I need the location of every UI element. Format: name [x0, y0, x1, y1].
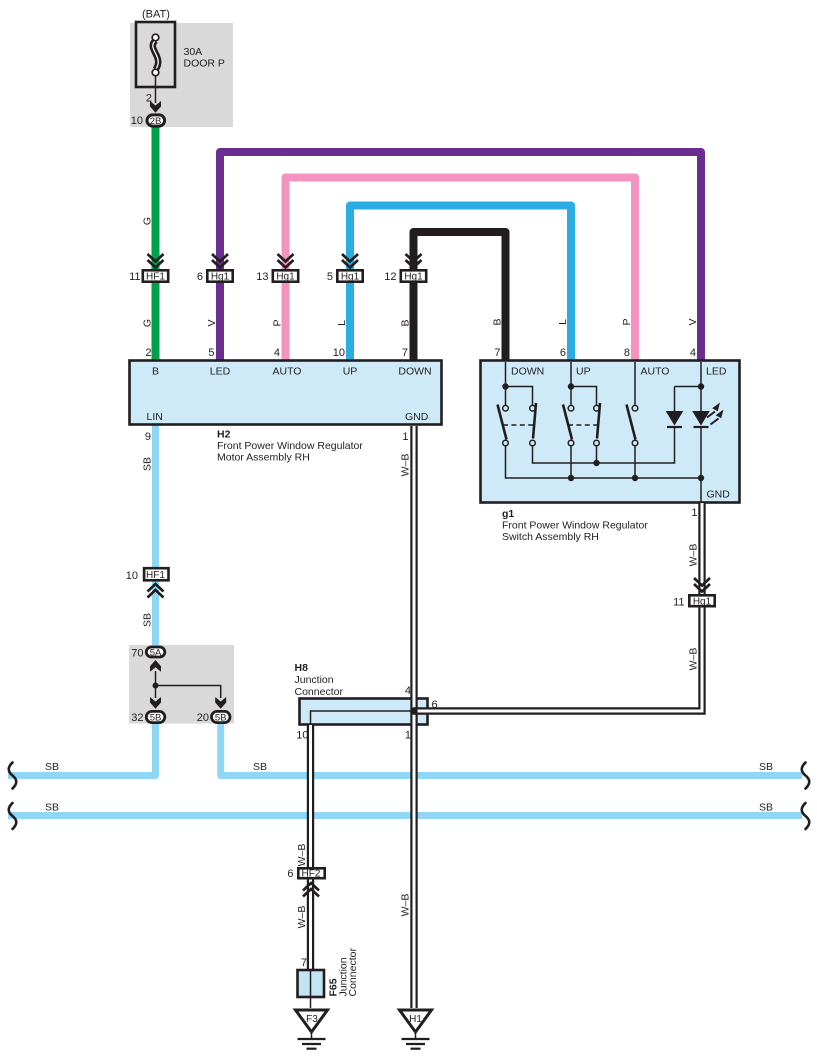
- switch AUTO (g1): [627, 405, 638, 446]
- svg-text:G: G: [142, 217, 154, 225]
- svg-text:L: L: [557, 319, 569, 325]
- connector box Hg1 pin 5: [337, 270, 362, 281]
- switch UP (g1, double pole): [563, 403, 600, 446]
- wire color labels (rotated): [142, 217, 700, 928]
- title F65 Junction Connector (rotated): [328, 948, 360, 997]
- svg-text:5A: 5A: [150, 648, 162, 659]
- svg-text:DOWN: DOWN: [511, 366, 544, 378]
- wire W-B H8 pin 10 to F65 pin 7: [307, 725, 314, 971]
- arrow into 5B right: [215, 697, 226, 709]
- svg-text:P: P: [621, 318, 633, 325]
- svg-text:LED: LED: [210, 366, 231, 378]
- svg-text:5: 5: [208, 347, 214, 359]
- svg-text:4: 4: [690, 347, 696, 359]
- fuse 30A DOOR P: [136, 22, 175, 87]
- svg-text:32: 32: [131, 712, 143, 724]
- svg-text:HF1: HF1: [146, 272, 165, 283]
- svg-text:W–B: W–B: [399, 894, 411, 917]
- bus break symbol upper-right: [802, 763, 810, 789]
- svg-text:Junction: Junction: [295, 674, 334, 686]
- svg-text:Hg1: Hg1: [211, 272, 230, 283]
- oval labels 2B 5A 5B: [150, 116, 227, 724]
- connector box Hg1 pin 12: [401, 270, 426, 281]
- svg-text:Motor Assembly RH: Motor Assembly RH: [217, 452, 310, 464]
- diode D1 (g1): [666, 411, 684, 427]
- svg-text:70: 70: [131, 648, 143, 660]
- svg-text:GND: GND: [405, 411, 429, 423]
- svg-text:Hg1: Hg1: [341, 272, 360, 283]
- title g1 Front Power Window Regulator Switch Assembly RH: [502, 508, 648, 543]
- svg-text:Front Power Window Regulator: Front Power Window Regulator: [502, 520, 648, 532]
- svg-text:8: 8: [624, 347, 630, 359]
- wire SB relay 5B pin 32 to left bus: [8, 723, 156, 776]
- pin labels H2 top row: [152, 366, 432, 378]
- node UP pin 6 branch (g1): [571, 362, 597, 406]
- svg-text:LED: LED: [706, 366, 727, 378]
- svg-text:V: V: [206, 319, 218, 326]
- svg-text:7: 7: [402, 347, 408, 359]
- connector oval 2B: [147, 115, 165, 126]
- svg-text:11: 11: [129, 271, 140, 283]
- bus break symbol upper-left: [9, 763, 17, 789]
- arrow into 5A: [150, 660, 161, 672]
- pin labels H2 bottom LIN GND: [147, 411, 429, 423]
- svg-text:P: P: [272, 319, 284, 326]
- junction connector H8 box: [300, 699, 428, 725]
- svg-text:W–B: W–B: [687, 648, 699, 671]
- connector box HF1 pin 11: [143, 270, 168, 281]
- svg-text:HF1: HF1: [146, 570, 165, 581]
- svg-text:H2: H2: [217, 429, 231, 441]
- wire L (cyan) H2 pin 10 UP to g1 pin 6 UP: [350, 206, 571, 361]
- pin labels g1 top row: [511, 366, 727, 378]
- svg-text:5B: 5B: [150, 713, 162, 724]
- fuse area gray panel: [130, 23, 233, 127]
- chevron into Hg1 pin 12: [406, 254, 422, 268]
- title H2 Front Power Window Regulator Motor Assembly RH: [217, 429, 363, 464]
- bus break symbol lower-right: [802, 803, 810, 829]
- svg-text:20: 20: [197, 712, 209, 724]
- ground H1: [400, 1010, 432, 1049]
- chevron into HF1 pin 11: [148, 254, 164, 268]
- wire AUTO contact to lower bus: [634, 446, 636, 478]
- node DOWN pin 7 branch (g1): [506, 362, 533, 406]
- motor assembly H2 box: [130, 361, 442, 425]
- arrow into 2B: [150, 101, 161, 113]
- chevron into Hg1 pin 6: [212, 254, 228, 268]
- svg-text:SB: SB: [45, 802, 59, 814]
- svg-text:2: 2: [145, 347, 151, 359]
- wire G (green) fuse 2B to H2 pin 2: [152, 126, 160, 360]
- connector oval 5A: [146, 647, 165, 657]
- connector box HF1 pin 10: [144, 568, 168, 580]
- svg-text:DOOR P: DOOR P: [184, 58, 225, 70]
- pin numbers relay 70 32 20: [131, 648, 209, 725]
- svg-text:W–B: W–B: [399, 454, 411, 477]
- svg-text:SB: SB: [45, 761, 59, 773]
- connector box labels: [146, 272, 712, 880]
- wire W-B g1 GND pin 1 to H8 pin 6: [414, 503, 702, 711]
- relay area gray panel: [129, 645, 234, 724]
- wire SB H2 LIN pin 9 to relay 5A: [152, 425, 159, 647]
- chevron into HF1 pin 10: [148, 584, 164, 598]
- svg-text:5B: 5B: [215, 713, 227, 724]
- svg-text:LIN: LIN: [147, 411, 163, 423]
- pin numbers H8 4 6 10 1: [296, 685, 437, 742]
- svg-text:6: 6: [560, 347, 566, 359]
- switch assembly g1 box: [481, 361, 740, 503]
- wire UP left contact to lower bus: [570, 446, 572, 478]
- svg-text:G: G: [142, 319, 154, 327]
- svg-text:10: 10: [126, 570, 138, 582]
- switch DOWN (g1, double pole): [498, 403, 537, 446]
- pin numbers H2 top: [145, 347, 408, 359]
- ground name labels F3 H1: [306, 1014, 422, 1025]
- junction dots g1 buses: [593, 460, 599, 466]
- node AUTO pin 8 line (g1): [634, 362, 636, 406]
- pin numbers H2 bottom 9 / 1: [145, 431, 409, 443]
- svg-text:DOWN: DOWN: [398, 366, 431, 378]
- svg-text:Hg1: Hg1: [404, 272, 423, 283]
- svg-text:V: V: [687, 318, 699, 325]
- arrow into 5B left: [150, 697, 161, 709]
- svg-text:7: 7: [494, 347, 500, 359]
- svg-text:SB: SB: [759, 802, 773, 814]
- connector box Hg1 pin 11: [689, 595, 714, 606]
- svg-text:SB: SB: [253, 761, 267, 773]
- svg-text:AUTO: AUTO: [273, 366, 302, 378]
- svg-text:H8: H8: [295, 662, 309, 674]
- svg-text:g1: g1: [502, 508, 514, 520]
- svg-text:Hg1: Hg1: [693, 597, 712, 608]
- svg-text:6: 6: [287, 868, 293, 880]
- svg-text:UP: UP: [343, 366, 358, 378]
- wire SB lower bus: [8, 812, 802, 819]
- svg-text:GND: GND: [707, 489, 731, 501]
- svg-text:SB: SB: [759, 761, 773, 773]
- wire B (black) H2 pin 7 DOWN to g1 pin 7 DOWN: [414, 232, 506, 360]
- svg-text:30A: 30A: [184, 46, 203, 58]
- LED D2 (g1): [692, 403, 723, 428]
- wire UP right contact to upper bus: [596, 446, 598, 463]
- title H8 Junction Connector: [295, 662, 344, 698]
- svg-text:10: 10: [333, 347, 345, 359]
- connector box Hg1 pin 13: [273, 270, 298, 281]
- svg-text:W–B: W–B: [296, 844, 308, 867]
- svg-text:L: L: [336, 320, 348, 326]
- svg-text:1: 1: [402, 431, 408, 443]
- svg-text:13: 13: [256, 271, 268, 283]
- wire V (purple) H2 pin 5 LED to g1 pin 4 LED: [220, 152, 701, 360]
- connector oval 5B left: [146, 711, 165, 722]
- svg-text:Hg1: Hg1: [276, 272, 295, 283]
- svg-text:4: 4: [405, 685, 411, 697]
- chevron into Hg1 pin 5: [342, 254, 358, 268]
- svg-text:B: B: [152, 366, 159, 378]
- labels SB on buses: [45, 761, 773, 814]
- pin numbers g1 top: [494, 347, 696, 359]
- wire SB relay 5B pin 20 to right bus: [221, 723, 802, 776]
- svg-text:Connector: Connector: [295, 686, 344, 698]
- pin numbers connector row: [129, 271, 396, 283]
- svg-text:W–B: W–B: [687, 544, 699, 567]
- svg-text:4: 4: [274, 347, 280, 359]
- svg-text:12: 12: [384, 271, 396, 283]
- svg-text:1: 1: [405, 730, 411, 742]
- svg-text:SB: SB: [142, 457, 154, 471]
- bus break symbol lower-left: [9, 803, 17, 829]
- wire P (pink) H2 pin 4 AUTO to g1 pin 8 AUTO: [286, 178, 636, 361]
- svg-text:9: 9: [145, 431, 151, 443]
- label (BAT) and fuse value: [142, 9, 225, 70]
- wire lower bus inside g1: [506, 446, 702, 478]
- svg-text:SB: SB: [142, 613, 154, 627]
- node LED pin 4 line (g1): [700, 362, 702, 503]
- svg-text:6: 6: [432, 699, 438, 711]
- junction dot H8: [410, 707, 417, 714]
- svg-text:W–B: W–B: [296, 906, 308, 929]
- wire F65 to ground F3: [310, 971, 312, 1008]
- svg-text:6: 6: [197, 271, 203, 283]
- svg-text:(BAT): (BAT): [142, 9, 170, 21]
- wire fuse pin 2 to connector 2B: [155, 76, 157, 103]
- ground F3: [296, 1010, 328, 1049]
- wire diode branch to LED node (g1): [675, 387, 702, 412]
- svg-text:10: 10: [131, 115, 143, 127]
- svg-text:F3: F3: [306, 1014, 318, 1025]
- svg-text:7: 7: [301, 957, 307, 969]
- svg-text:10: 10: [296, 730, 308, 742]
- svg-text:AUTO: AUTO: [641, 366, 670, 378]
- chevron into HF2 pin 6: [303, 883, 319, 897]
- junction connector F65 box: [298, 970, 325, 997]
- svg-text:HF2: HF2: [302, 869, 321, 880]
- chevron into Hg1 pin 13: [278, 254, 294, 268]
- wire upper bus inside g1: [533, 427, 675, 463]
- svg-text:2: 2: [146, 93, 152, 105]
- svg-text:B: B: [492, 318, 504, 325]
- svg-text:Connector: Connector: [347, 948, 359, 997]
- svg-text:11: 11: [673, 597, 684, 609]
- connector oval 5B right: [212, 711, 231, 722]
- svg-text:2B: 2B: [150, 116, 162, 127]
- chevron into Hg1 pin 11: [694, 578, 710, 592]
- svg-text:5: 5: [327, 271, 333, 283]
- pin numbers fuse and 2B: [131, 93, 152, 128]
- svg-text:B: B: [400, 319, 412, 326]
- svg-text:UP: UP: [576, 366, 591, 378]
- svg-text:1: 1: [691, 507, 697, 519]
- svg-text:H1: H1: [409, 1014, 422, 1025]
- wire W-B H2 GND pin 1 through H8 pin 4/1 to ground H1: [410, 426, 417, 1008]
- svg-text:Switch Assembly RH: Switch Assembly RH: [502, 531, 599, 543]
- connector box HF2 pin 6: [298, 868, 324, 878]
- svg-text:Front Power Window Regulator: Front Power Window Regulator: [217, 440, 363, 452]
- wire H8 internal pin 10 branch: [311, 711, 415, 724]
- wire relay 5A to 5B branch: [155, 671, 157, 698]
- connector box Hg1 pin 6: [207, 270, 232, 281]
- junction dot relay: [153, 683, 159, 689]
